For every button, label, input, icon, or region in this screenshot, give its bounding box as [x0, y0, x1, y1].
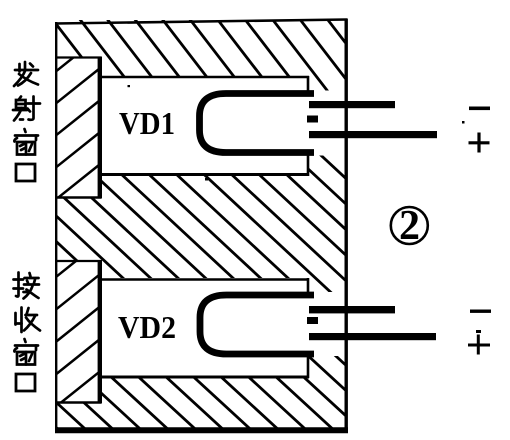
hanzi shou (collect)	[16, 308, 41, 333]
polarity minus (lower)	[470, 310, 491, 313]
receiving window bottom edge	[56, 401, 101, 403]
hanzi kou (mouth) lower	[16, 374, 35, 391]
LED VD2 inner electrode mark	[307, 317, 318, 324]
emission window bottom edge	[56, 196, 101, 198]
channel 1 bottom step	[307, 155, 310, 176]
hanzi chuang (window)	[14, 129, 38, 155]
channel 2 bottom step	[307, 356, 310, 378]
svg-text:2: 2	[399, 203, 420, 249]
svg-text:VD1: VD1	[119, 105, 175, 141]
channel 2 bottom edge	[101, 376, 309, 379]
speck dot in channel 1	[128, 85, 131, 87]
housing bottom edge	[55, 427, 348, 433]
receiving window top edge	[56, 260, 101, 262]
hanzi jie (receive)	[14, 273, 40, 299]
polarity plus (lower)	[468, 335, 490, 355]
svg-text:VD2: VD2	[118, 309, 176, 345]
channel 1 top edge	[101, 76, 309, 79]
hanzi chuang (window) lower	[14, 339, 38, 365]
lead VD2 cathode (upper, short)	[309, 306, 395, 313]
emission window hatching	[0, 0, 350, 440]
hanzi fa (emit)	[14, 62, 38, 86]
emission window top edge	[56, 56, 101, 58]
hanzi kou (mouth)	[16, 164, 35, 181]
channel 1 bottom edge	[101, 173, 309, 176]
speck dot near VD1 dome	[205, 178, 208, 181]
housing left edge	[55, 22, 57, 430]
lead VD1 cathode (upper, short)	[309, 101, 395, 108]
LED VD1 outline (dome + body)	[200, 94, 315, 153]
speck above lower plus	[476, 330, 481, 333]
channel 2 top edge	[101, 278, 309, 281]
speck dot near upper labels	[462, 121, 465, 124]
LED VD1 inner electrode mark	[307, 116, 318, 123]
receiving window right edge	[98, 260, 102, 404]
emission window right edge	[98, 57, 102, 199]
circled figure number 2	[391, 207, 428, 244]
channel 2 top step	[307, 278, 310, 293]
housing right edge	[345, 19, 348, 433]
housing top edge	[55, 20, 347, 24]
lead VD2 anode (lower, long)	[309, 333, 436, 340]
hanzi she (shoot)	[13, 97, 40, 121]
LED VD2 outline (dome + body)	[200, 295, 314, 354]
lead VD1 anode (lower, long)	[309, 131, 437, 138]
polarity plus (upper)	[469, 133, 490, 153]
polarity minus (upper)	[469, 107, 490, 111]
channel 1 top step	[307, 76, 310, 91]
